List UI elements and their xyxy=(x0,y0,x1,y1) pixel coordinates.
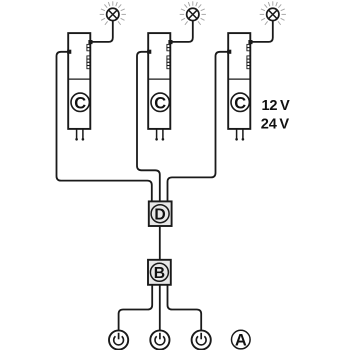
lamp L1 rays xyxy=(100,1,126,25)
module C2 divider line xyxy=(148,78,170,80)
wire module C1 to distributor D xyxy=(57,52,152,202)
sensor module C2 body xyxy=(148,33,170,129)
power switch S2 xyxy=(150,330,169,349)
module C3 contact squares xyxy=(247,44,250,68)
wire module C3 to distributor D xyxy=(168,52,229,202)
wire module C2 to distributor D xyxy=(137,52,160,202)
module C3 right terminal xyxy=(248,40,252,44)
label A (remote) xyxy=(232,330,251,349)
lamp L2 rays xyxy=(180,1,206,25)
power switch S3 xyxy=(192,330,211,349)
module C1 left terminal xyxy=(67,50,71,54)
module C3 divider line xyxy=(228,78,250,80)
sensor module C1 body xyxy=(68,33,90,129)
wire lamp L3 to module C3 right terminal xyxy=(250,21,272,42)
lamp L1 xyxy=(107,8,119,20)
wire controller B to switch S3 xyxy=(168,285,202,331)
module C1 pins xyxy=(76,129,78,139)
svg-text:D: D xyxy=(154,206,165,223)
module C3 left terminal xyxy=(227,50,231,54)
wire controller B to switch S2 xyxy=(159,285,161,331)
module C1 contact squares xyxy=(87,44,90,68)
module C2 contact squares xyxy=(167,44,170,68)
module C3 pins xyxy=(236,129,238,139)
svg-text:24 V: 24 V xyxy=(261,116,290,132)
sensor module C3 body xyxy=(228,33,250,129)
module C2 pins xyxy=(156,129,158,139)
wire controller B to switch S1 xyxy=(119,285,153,331)
module C1 right terminal xyxy=(88,40,92,44)
distributor box D xyxy=(149,201,172,226)
power switch S1 xyxy=(109,330,128,349)
controller box B xyxy=(148,260,171,285)
module C3 label C xyxy=(231,93,249,111)
svg-text:B: B xyxy=(154,265,165,282)
lamp L3 xyxy=(267,8,279,20)
svg-text:12 V: 12 V xyxy=(262,98,291,114)
svg-text:C: C xyxy=(154,94,166,112)
module C2 left terminal xyxy=(147,50,151,54)
wire distributor D to controller B xyxy=(159,226,161,260)
svg-text:C: C xyxy=(234,94,246,112)
module C1 divider line xyxy=(68,78,90,80)
module C2 label C xyxy=(151,93,169,111)
svg-text:A: A xyxy=(235,332,247,350)
module C2 right terminal xyxy=(168,40,172,44)
wire lamp L2 to module C2 right terminal xyxy=(170,21,193,42)
wire lamp L1 to module C1 right terminal xyxy=(90,21,113,42)
module C1 label C xyxy=(71,93,89,111)
lamp L2 xyxy=(187,8,199,20)
svg-text:C: C xyxy=(74,94,86,112)
lamp L3 rays xyxy=(260,1,286,25)
